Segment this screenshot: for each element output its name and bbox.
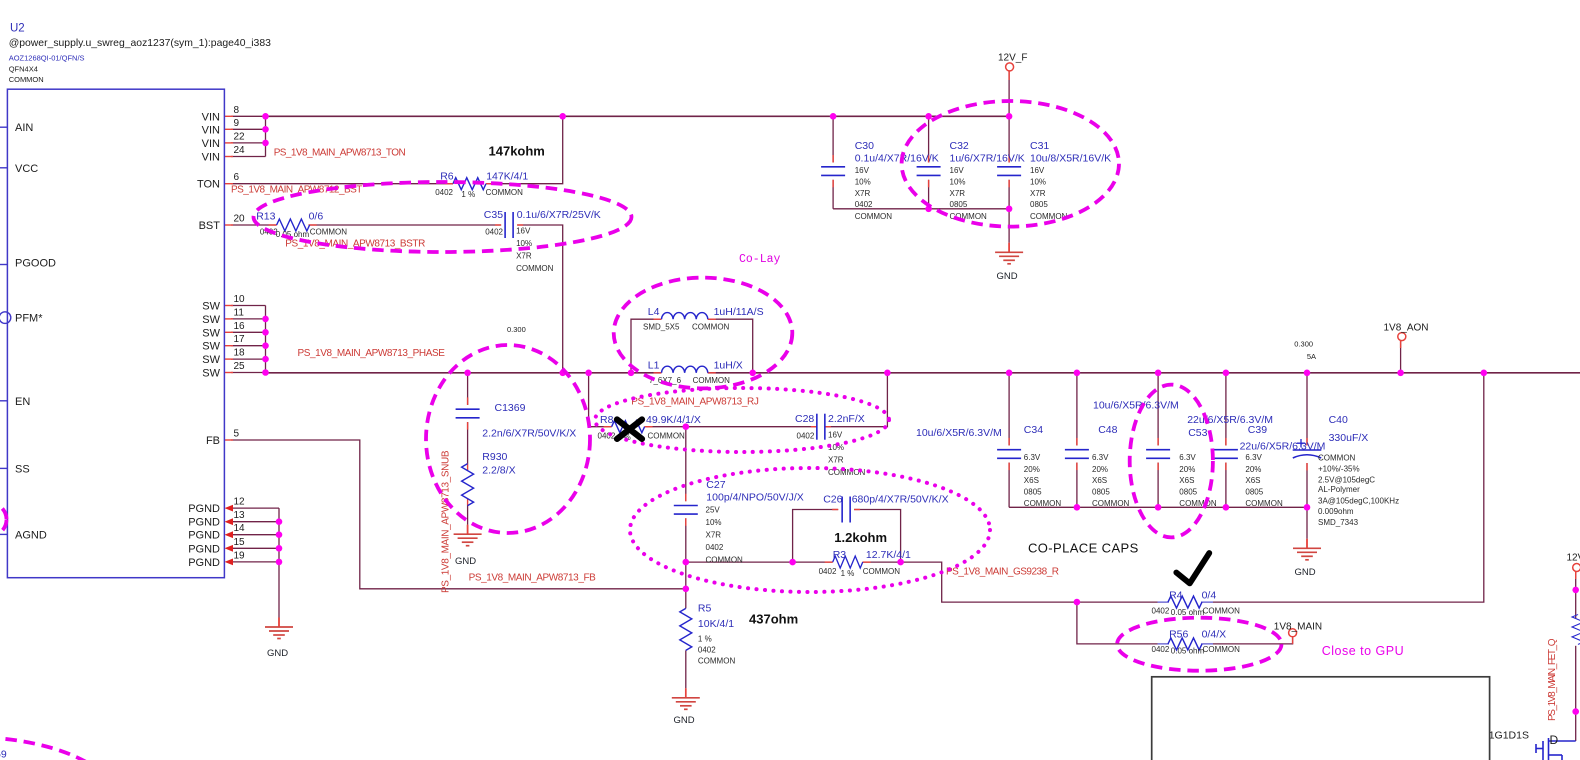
node 1V8_MAIN <box>1274 622 1322 637</box>
wire FB net <box>231 440 686 589</box>
svg-text:C27: C27 <box>706 479 725 491</box>
svg-text:0.05 ohm: 0.05 ohm <box>1171 646 1205 655</box>
wire R56 branch to 1V8_MAIN <box>1077 602 1168 644</box>
wire BST net <box>231 224 277 226</box>
svg-text:D: D <box>1550 733 1559 747</box>
svg-text:24: 24 <box>234 145 246 156</box>
svg-text:COMMON: COMMON <box>693 376 731 385</box>
svg-text:0805: 0805 <box>1245 488 1263 497</box>
node 12V_F <box>998 53 1027 71</box>
svg-text:PS_1V8_MAIN_APW8713_TON: PS_1V8_MAIN_APW8713_TON <box>274 147 406 158</box>
svg-text:0402: 0402 <box>598 432 616 441</box>
svg-text:10K/4/1: 10K/4/1 <box>698 618 734 630</box>
wire C27 branch down to FB node and R5 <box>685 427 687 502</box>
svg-text:SW: SW <box>202 341 220 353</box>
svg-text:6.3V: 6.3V <box>1092 453 1109 462</box>
svg-text:20%: 20% <box>1092 465 1108 474</box>
node annotation ellipse BST <box>254 182 632 252</box>
inductor L4 <box>643 306 764 332</box>
svg-text:0402: 0402 <box>698 645 716 654</box>
svg-text:X6S: X6S <box>1179 476 1194 485</box>
svg-text:SW: SW <box>202 301 220 313</box>
svg-text:VIN: VIN <box>202 138 220 150</box>
svg-text:U2: U2 <box>10 23 25 35</box>
svg-text:SW: SW <box>202 314 220 326</box>
svg-text:PS_1V8_MAIN_APW8713_RJ: PS_1V8_MAIN_APW8713_RJ <box>631 397 759 408</box>
capacitor C27 <box>674 479 804 565</box>
wire caps bottom rail top-section <box>833 208 1009 210</box>
svg-text:AOZ1268QI-01/QFN/S: AOZ1268QI-01/QFN/S <box>9 54 85 63</box>
svg-text:GND: GND <box>1295 567 1316 578</box>
svg-text:SMD_5X5: SMD_5X5 <box>643 323 680 332</box>
svg-text:16V: 16V <box>855 166 870 175</box>
svg-text:PS_1V8_MAIN_GS9238_R: PS_1V8_MAIN_GS9238_R <box>946 567 1059 578</box>
ground R5 <box>672 688 700 726</box>
svg-text:16V: 16V <box>1030 166 1045 175</box>
capacitor C34 <box>916 424 1061 508</box>
svg-text:PFM*: PFM* <box>15 313 43 325</box>
svg-text:0.300: 0.300 <box>1294 340 1313 349</box>
svg-text:8: 8 <box>234 105 240 116</box>
svg-text:0.1u/6/X7R/25V/K: 0.1u/6/X7R/25V/K <box>517 209 601 221</box>
svg-text:147kohm: 147kohm <box>489 144 545 159</box>
svg-text:COMMON: COMMON <box>486 188 524 197</box>
svg-text:1uH/X: 1uH/X <box>714 360 743 372</box>
svg-text:R5: R5 <box>698 602 712 614</box>
coil terminal stubs <box>654 318 662 320</box>
node annotation arc bottom-left <box>0 737 120 760</box>
wire 1V8_AON drop <box>1400 341 1402 373</box>
cap terminal stubs <box>495 224 501 226</box>
svg-text:20%: 20% <box>1245 465 1261 474</box>
svg-text:1V8_AON: 1V8_AON <box>1384 323 1429 334</box>
svg-text:10%: 10% <box>855 178 871 187</box>
capacitor C35 <box>484 209 601 273</box>
svg-text:BST: BST <box>199 220 221 232</box>
svg-text:C34: C34 <box>1024 424 1043 436</box>
svg-text:+10%/-35%: +10%/-35% <box>1318 464 1360 473</box>
svg-text:0.009ohm: 0.009ohm <box>1318 507 1354 516</box>
capacitor C1369 <box>456 402 577 440</box>
svg-text:Close to GPU: Close to GPU <box>1322 644 1404 658</box>
svg-text:10u/6/X5R/6.3V/M: 10u/6/X5R/6.3V/M <box>1093 400 1179 412</box>
svg-text:PS_1V8_MAIN_APW8713_SNUB: PS_1V8_MAIN_APW8713_SNUB <box>441 450 452 593</box>
svg-text:COMMON: COMMON <box>1318 454 1356 463</box>
wire RJ net R8/C28 <box>589 373 612 427</box>
op-amp U2 chip body <box>0 89 245 578</box>
svg-text:0/6: 0/6 <box>309 210 324 222</box>
svg-text:13: 13 <box>234 510 246 521</box>
svg-text:20%: 20% <box>1024 465 1040 474</box>
svg-text:COMMON: COMMON <box>698 657 736 666</box>
svg-text:18: 18 <box>234 348 246 359</box>
svg-text:12V_F: 12V_F <box>998 53 1027 64</box>
svg-text:X6S: X6S <box>1245 476 1260 485</box>
wire PGND rows <box>231 507 279 509</box>
svg-text:COMMON: COMMON <box>863 567 901 576</box>
svg-text:1V8_MAIN: 1V8_MAIN <box>1274 622 1322 633</box>
wire top VIN rail <box>266 115 1010 117</box>
svg-text:GND: GND <box>455 556 476 567</box>
svg-text:C53: C53 <box>1188 427 1207 439</box>
svg-text:COMMON: COMMON <box>692 323 730 332</box>
ground under C40 <box>1293 539 1321 578</box>
svg-text:R56: R56 <box>1169 628 1188 640</box>
wire VIN pin connector vertical <box>265 116 267 156</box>
svg-text:AIN: AIN <box>15 122 33 134</box>
node check mark <box>1176 553 1209 583</box>
node GPU block <box>1152 677 1490 760</box>
svg-text:SW: SW <box>202 368 220 380</box>
svg-text:15: 15 <box>234 537 246 548</box>
node 1V8_AON <box>1384 323 1429 341</box>
wire VIN pin rows <box>231 115 266 117</box>
svg-text:10%: 10% <box>706 518 722 527</box>
svg-text:14: 14 <box>234 523 246 534</box>
svg-text:2.2nF/X: 2.2nF/X <box>828 413 865 425</box>
svg-text:0402: 0402 <box>797 432 815 441</box>
capacitor C26 <box>823 494 948 523</box>
svg-text:2.2n/6/X7R/50V/K/X: 2.2n/6/X7R/50V/K/X <box>482 428 576 440</box>
svg-text:COMMON: COMMON <box>1203 606 1241 615</box>
svg-text:FB: FB <box>206 435 220 447</box>
svg-text:1.2kohm: 1.2kohm <box>834 530 887 545</box>
wire TON net <box>231 183 453 185</box>
svg-text:COMMON: COMMON <box>9 75 44 84</box>
net circle stubs <box>1008 72 1010 81</box>
svg-text:L1: L1 <box>648 360 660 372</box>
svg-text:147K/4/1: 147K/4/1 <box>486 170 528 182</box>
resistor R56 <box>1152 628 1241 655</box>
svg-text:0805: 0805 <box>1030 200 1048 209</box>
resistor R930 <box>462 451 516 506</box>
capacitor C39 <box>1214 424 1326 508</box>
svg-text:GND: GND <box>267 648 288 659</box>
wire PGND vertical to ground <box>278 508 280 617</box>
capacitor C53 <box>1146 414 1273 508</box>
svg-text:X7R: X7R <box>516 252 532 261</box>
svg-text:R8: R8 <box>600 414 614 426</box>
svg-text:C40: C40 <box>1329 414 1348 426</box>
svg-text:COMMON: COMMON <box>1030 212 1068 221</box>
resistor R6 <box>435 170 528 199</box>
svg-text:0402: 0402 <box>1152 645 1170 654</box>
svg-text:22: 22 <box>234 131 246 142</box>
svg-text:COMMON: COMMON <box>1179 499 1217 508</box>
svg-text:C30: C30 <box>855 140 874 152</box>
svg-text:16V: 16V <box>516 227 531 236</box>
transistor Q FET partial <box>1536 738 1576 760</box>
svg-text:VIN: VIN <box>202 152 220 164</box>
resistor right edge <box>1572 615 1580 645</box>
node annotation dotted ellipse C27 group <box>630 468 990 592</box>
ground PGND <box>265 618 293 660</box>
svg-text:X7R: X7R <box>706 531 722 540</box>
svg-text:20%: 20% <box>1179 465 1195 474</box>
svg-text:COMMON: COMMON <box>1245 499 1283 508</box>
svg-text:COMMON: COMMON <box>1203 645 1241 654</box>
svg-text:437ohm: 437ohm <box>749 612 798 627</box>
svg-text:PGND: PGND <box>188 530 220 542</box>
svg-text:VIN: VIN <box>202 124 220 136</box>
svg-text:X7R: X7R <box>950 189 966 198</box>
svg-text:SW: SW <box>202 327 220 339</box>
wire C48 branch <box>1076 373 1078 446</box>
wire C31 / 12V_F branch <box>1008 72 1010 163</box>
svg-text:2.2/8/X: 2.2/8/X <box>482 465 515 477</box>
svg-text:PGND: PGND <box>188 517 220 529</box>
svg-text:R13: R13 <box>256 210 275 222</box>
svg-text:C26: C26 <box>823 494 842 506</box>
svg-text:16: 16 <box>234 321 246 332</box>
svg-text:49.9K/4/1/X: 49.9K/4/1/X <box>646 414 701 426</box>
svg-text:PS_1V8_MAIN_APW8713_PHASE: PS_1V8_MAIN_APW8713_PHASE <box>298 348 446 359</box>
svg-text:0402: 0402 <box>819 567 837 576</box>
svg-text:COMMON: COMMON <box>648 432 686 441</box>
wire C32 branch <box>928 116 930 162</box>
gnd stubs (upper maroon part already); red approach <box>1008 243 1010 253</box>
svg-text:AGND: AGND <box>15 529 47 541</box>
svg-text:10: 10 <box>234 294 246 305</box>
svg-text:R4: R4 <box>1169 589 1183 601</box>
node annotation dotted ellipse RJ <box>595 388 889 452</box>
svg-text:5: 5 <box>234 429 240 440</box>
svg-text:C31: C31 <box>1030 140 1049 152</box>
svg-text:330uF/X: 330uF/X <box>1329 432 1369 444</box>
node annotation arc AGND <box>0 503 7 536</box>
node annotation ellipse snubber <box>426 345 590 533</box>
svg-text:0402: 0402 <box>1152 606 1170 615</box>
wire C39 branch <box>1225 373 1227 446</box>
svg-text:17: 17 <box>234 334 246 345</box>
svg-text:GND: GND <box>674 715 695 726</box>
pin stubs left <box>0 127 7 534</box>
resistor R4 <box>1152 589 1241 617</box>
node 12V right edge <box>1567 553 1580 572</box>
svg-text:VCC: VCC <box>15 163 38 175</box>
svg-text:C1369: C1369 <box>495 402 526 414</box>
wire C30 branch <box>832 116 834 162</box>
PGND input arrows <box>225 505 234 566</box>
svg-text:0805: 0805 <box>1092 488 1110 497</box>
svg-text:COMMON: COMMON <box>1024 499 1062 508</box>
svg-text:PGND: PGND <box>188 503 220 515</box>
vertical resistor stubs <box>467 464 469 470</box>
svg-text:12: 12 <box>234 497 246 508</box>
svg-text:6.3V: 6.3V <box>1245 453 1262 462</box>
svg-text:10%: 10% <box>950 178 966 187</box>
svg-text:R3: R3 <box>833 549 847 561</box>
svg-text:6.3V: 6.3V <box>1179 453 1196 462</box>
svg-text:PGND: PGND <box>188 557 220 569</box>
capacitor C32 <box>917 140 1025 221</box>
svg-text:0402: 0402 <box>855 200 873 209</box>
svg-text:0805: 0805 <box>1024 488 1042 497</box>
wire SW pin rows <box>231 305 266 307</box>
svg-text:0.1u/4/X7R/16V/K: 0.1u/4/X7R/16V/K <box>855 152 939 164</box>
wire snubber branch C1369/R930 <box>467 373 469 405</box>
svg-text:6.3V: 6.3V <box>1024 453 1041 462</box>
svg-text:C35: C35 <box>484 209 503 221</box>
capacitor C30 <box>821 140 939 221</box>
node X mark <box>617 420 642 439</box>
svg-text:3A@105degC,100KHz: 3A@105degC,100KHz <box>1318 496 1399 505</box>
svg-text:10u/8/X5R/16V/K: 10u/8/X5R/16V/K <box>1030 152 1111 164</box>
svg-text:COMMON: COMMON <box>516 264 554 273</box>
svg-text:1 %: 1 % <box>841 569 855 578</box>
svg-text:PGND: PGND <box>188 543 220 555</box>
svg-text:EN: EN <box>15 396 30 408</box>
wire SW main bus <box>266 372 662 374</box>
PFM bubble <box>0 312 11 324</box>
svg-text:GND: GND <box>997 271 1018 282</box>
capacitor C31 <box>997 140 1111 221</box>
svg-text:5A: 5A <box>1307 352 1316 361</box>
svg-text:SS: SS <box>15 463 30 475</box>
svg-text:C39: C39 <box>1248 424 1267 436</box>
resistor R5 <box>680 602 736 665</box>
wire C26 parallel loop <box>793 510 839 563</box>
node annotation ellipse C53 <box>1130 385 1213 538</box>
svg-text:Co-Lay: Co-Lay <box>739 253 781 266</box>
wire caps bottom rail bus-section <box>1009 506 1307 508</box>
svg-text:SMD_7343: SMD_7343 <box>1318 518 1359 527</box>
wire C53 branch <box>1157 373 1159 446</box>
svg-text:PS_1V8_MAIN_FET_Q: PS_1V8_MAIN_FET_Q <box>1547 638 1558 721</box>
capacitor C40 polarized <box>1293 414 1399 527</box>
svg-text:0/4: 0/4 <box>1202 589 1217 601</box>
svg-text:16V: 16V <box>828 431 843 440</box>
svg-text:1G1D1S: 1G1D1S <box>1489 730 1529 742</box>
node annotation ellipse R56 <box>1117 618 1281 671</box>
capacitor C28 <box>795 413 866 477</box>
svg-text:20: 20 <box>234 214 246 225</box>
svg-text:PS_1V8_MAIN_APW8713_FB: PS_1V8_MAIN_APW8713_FB <box>469 573 597 584</box>
ground under 12V_F caps <box>995 243 1023 282</box>
svg-text:10u/6/X5R/6.3V/M: 10u/6/X5R/6.3V/M <box>916 427 1002 439</box>
svg-text:L4: L4 <box>648 306 660 318</box>
inductor L1 <box>648 360 743 386</box>
wire C40 branch <box>1306 373 1308 446</box>
wire right edge 12V net <box>1575 571 1577 618</box>
wire L4 parallel loop <box>631 319 662 373</box>
wire R3 / GS9238 net <box>686 561 833 563</box>
svg-text:9: 9 <box>234 118 240 129</box>
svg-text:25: 25 <box>234 361 246 372</box>
svg-text:X6S: X6S <box>1024 476 1039 485</box>
svg-text:TON: TON <box>197 179 220 191</box>
svg-text:0.05 ohm: 0.05 ohm <box>1171 608 1205 617</box>
svg-text:12.7K/4/1: 12.7K/4/1 <box>866 549 911 561</box>
resistor R3 <box>819 549 911 578</box>
svg-text:16V: 16V <box>950 166 965 175</box>
svg-text:1 %: 1 % <box>461 190 475 199</box>
node annotation ellipse C32/C31 <box>902 101 1119 227</box>
svg-text:0805: 0805 <box>950 200 968 209</box>
svg-text:CO-PLACE CAPS: CO-PLACE CAPS <box>1028 541 1139 556</box>
svg-text:C32: C32 <box>950 140 969 152</box>
svg-text:0402: 0402 <box>485 228 503 237</box>
wire GND drop C40 <box>1306 507 1308 539</box>
svg-text:R930: R930 <box>482 451 507 463</box>
svg-text:AL-Polymer: AL-Polymer <box>1318 485 1360 494</box>
svg-text:12V: 12V <box>1567 553 1580 564</box>
svg-text:COMMON: COMMON <box>1092 499 1130 508</box>
resistor R8 <box>598 414 701 442</box>
svg-text:0402: 0402 <box>706 543 724 552</box>
svg-text:SW: SW <box>202 354 220 366</box>
svg-text:COMMON: COMMON <box>855 212 893 221</box>
svg-text:0/4/X: 0/4/X <box>1202 628 1227 640</box>
svg-text:@power_supply.u_swreg_aoz1237(: @power_supply.u_swreg_aoz1237(sym_1):pag… <box>9 38 271 49</box>
svg-text:100p/4/NPO/50V/J/X: 100p/4/NPO/50V/J/X <box>706 492 803 504</box>
resistor terminal stubs <box>445 183 453 185</box>
svg-text:0.300: 0.300 <box>507 325 526 334</box>
capacitor C48 <box>1065 400 1179 509</box>
svg-text:X7R: X7R <box>828 456 844 465</box>
svg-text:6: 6 <box>234 172 240 183</box>
wire SW pin connector vertical <box>265 306 267 373</box>
svg-text:59: 59 <box>0 749 7 760</box>
svg-text:25V: 25V <box>706 506 721 515</box>
svg-text:C28: C28 <box>795 413 814 425</box>
svg-text:COMMON: COMMON <box>706 556 744 565</box>
resistor R13 <box>256 210 347 239</box>
node annotation ellipse L4/L1 <box>614 278 793 389</box>
svg-text:QFN4X4: QFN4X4 <box>9 65 38 74</box>
svg-text:2.5V@105degC: 2.5V@105degC <box>1318 476 1375 485</box>
svg-text:VIN: VIN <box>202 111 220 123</box>
svg-text:C48: C48 <box>1098 424 1117 436</box>
wire C34 branch <box>1008 373 1010 446</box>
wire GND drop 12V_F caps <box>1008 209 1010 243</box>
svg-text:1u/6/X7R/16V/K: 1u/6/X7R/16V/K <box>950 152 1025 164</box>
svg-text:PGOOD: PGOOD <box>15 258 56 270</box>
svg-text:0805: 0805 <box>1179 488 1197 497</box>
svg-text:X7R: X7R <box>855 189 871 198</box>
svg-text:680p/4/X7R/50V/K/X: 680p/4/X7R/50V/K/X <box>852 494 949 506</box>
svg-text:X6S: X6S <box>1092 476 1107 485</box>
pin stubs chip right side <box>224 115 233 117</box>
svg-text:1 %: 1 % <box>698 634 712 643</box>
svg-text:COMMON: COMMON <box>310 228 348 237</box>
svg-text:10%: 10% <box>1030 178 1046 187</box>
svg-text:11: 11 <box>234 307 245 318</box>
svg-text:X7R: X7R <box>1030 189 1046 198</box>
svg-text:19: 19 <box>234 550 246 561</box>
svg-text:1uH/11A/S: 1uH/11A/S <box>714 306 764 318</box>
svg-text:0402: 0402 <box>435 188 453 197</box>
ground snubber <box>454 525 482 567</box>
